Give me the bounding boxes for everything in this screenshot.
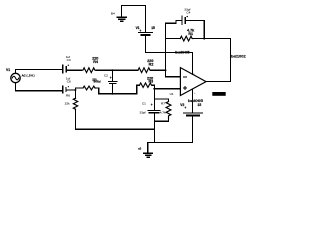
svg-text:+: + — [139, 29, 141, 33]
wire C4 to output riser — [186, 20, 204, 38]
svg-text:C1: C1 — [142, 102, 146, 106]
wire R4 to R2 — [96, 69, 138, 71]
junction node C2 tap — [111, 69, 113, 71]
svg-text:U1: U1 — [170, 92, 174, 96]
capacitor C3 — [63, 65, 67, 73]
svg-text:bat005: bat005 — [175, 51, 190, 55]
resistor R7 (4.7k vertical) — [166, 102, 171, 122]
wire RC join — [154, 120, 168, 122]
R1 labels — [187, 28, 195, 35]
wire source top to C3 — [16, 69, 62, 73]
svg-text:15: 15 — [198, 103, 202, 107]
svg-text:+: + — [151, 103, 153, 107]
R6 labels — [65, 94, 71, 106]
ground (top, net B4) — [117, 5, 126, 21]
capacitor C6 — [63, 86, 66, 93]
svg-text:bat005: bat005 — [188, 99, 203, 103]
wire top ground to battery V1 — [122, 4, 146, 6]
resistor R5 — [83, 86, 96, 90]
RC bias network riser — [153, 89, 155, 99]
C3 polarity dot — [68, 65, 69, 66]
svg-text:33pf: 33pf — [140, 111, 146, 115]
wire ground run to battery V2 — [148, 142, 193, 144]
C6 labels — [66, 77, 71, 84]
svg-text:+: + — [110, 76, 112, 80]
C4 labels — [184, 8, 190, 15]
capacitor C2 (bridges branches) — [108, 70, 116, 94]
svg-text:22k: 22k — [65, 102, 70, 106]
svg-text:R7: R7 — [161, 102, 165, 106]
svg-text:R6: R6 — [66, 94, 70, 98]
resistor R3 — [140, 83, 152, 87]
wire C3 to R4 — [67, 69, 82, 71]
C4 polarity dot — [187, 16, 188, 17]
R2 labels — [147, 59, 153, 66]
wire source bottom to C6 — [16, 83, 62, 91]
svg-text:a3: a3 — [138, 147, 141, 151]
svg-text:C6: C6 — [67, 79, 71, 83]
svg-text:AC ( .5 0 ): AC ( .5 0 ) — [22, 73, 35, 77]
svg-text:+: + — [184, 106, 186, 110]
battery V1 labels — [136, 26, 155, 33]
op-amp U1 — [180, 68, 206, 96]
resistor R2 — [138, 68, 150, 73]
wire C6 to junction of R6 — [67, 89, 76, 91]
battery V2 (negative supply) — [184, 90, 203, 143]
svg-text:R2: R2 — [149, 63, 154, 67]
wire jog up to R5 — [76, 88, 84, 90]
wire rail to ground level — [153, 129, 155, 142]
junction node R6 tap — [74, 89, 76, 91]
resistor R1 (4.7k feedback) — [180, 36, 192, 41]
svg-text:15: 15 — [151, 26, 155, 30]
wire C4 branch left — [166, 20, 182, 23]
ground (bottom) — [144, 143, 153, 158]
wire R3 riser — [137, 85, 140, 94]
wire R5 to lower run — [96, 88, 137, 94]
battery V2 labels — [180, 103, 201, 110]
svg-text:C4: C4 — [186, 11, 190, 15]
wire feedback to R1 — [166, 38, 181, 40]
svg-text:C2: C2 — [104, 73, 108, 77]
wire battery V1 to op-amp V+ pin — [146, 53, 193, 75]
svg-text:4.7k: 4.7k — [160, 111, 166, 115]
svg-text:V+: V+ — [193, 74, 196, 76]
wire R3 to plus input — [152, 85, 180, 89]
svg-text:AD8605: AD8605 — [213, 93, 223, 96]
junction node plus input RC tap — [153, 88, 155, 90]
feedback vertical wire — [166, 23, 181, 77]
C3 labels — [66, 55, 71, 62]
svg-text:R3: R3 — [148, 80, 153, 84]
wire R2 to feedback node (minus input branch) — [151, 69, 166, 71]
capacitor C4 — [182, 16, 185, 24]
svg-text:68470pf: 68470pf — [94, 80, 101, 84]
R4 labels — [92, 56, 99, 63]
svg-text:R1: R1 — [188, 32, 193, 36]
junction node C2 bottom — [111, 93, 113, 95]
R7 labels — [160, 102, 166, 115]
wire RC to rail — [153, 121, 155, 129]
wire R1 to output riser — [192, 38, 231, 40]
junction node minus input — [165, 69, 167, 71]
capacitor C1 (33pf) — [148, 99, 160, 121]
resistor R4 — [82, 68, 96, 73]
C1 labels — [140, 102, 153, 115]
svg-text:V-: V- — [194, 93, 196, 95]
source V1 (AC) circle — [11, 73, 20, 82]
output wire — [206, 39, 230, 82]
svg-text:bat1002: bat1002 — [231, 55, 246, 59]
svg-text:V1: V1 — [6, 68, 10, 72]
C6 polarity dot — [68, 86, 69, 87]
R3 labels — [147, 77, 153, 84]
bottom rail wire — [76, 128, 155, 130]
C2 labels — [92, 73, 112, 83]
junction node C4 tap — [203, 38, 205, 40]
svg-text:B4: B4 — [111, 11, 115, 15]
battery V1 (top supply) — [138, 5, 152, 52]
wire T to R7 — [154, 99, 168, 102]
svg-text:C3: C3 — [67, 58, 71, 62]
op-amp part name highlight box — [212, 92, 225, 96]
resistor R6 (22k vertical) — [73, 90, 77, 129]
